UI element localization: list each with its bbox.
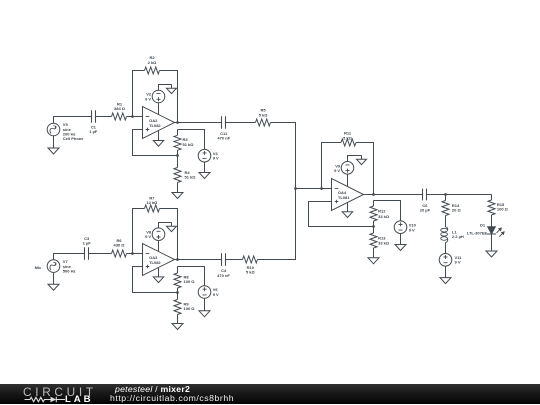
- wire: [491, 234, 493, 251]
- svg-text:33 kΩ: 33 kΩ: [378, 241, 390, 246]
- node A junction: [131, 115, 134, 118]
- wire: [427, 194, 492, 196]
- wire: [159, 223, 172, 228]
- wire: [400, 234, 402, 245]
- svg-text:D1: D1: [480, 223, 486, 228]
- ground: [48, 136, 59, 154]
- ground: [486, 251, 497, 257]
- wire: [175, 122, 222, 124]
- svg-text:5 kΩ: 5 kΩ: [246, 270, 256, 275]
- ground: [368, 258, 379, 264]
- resistor R13 (33 kOhm): [370, 227, 390, 258]
- ground: [440, 278, 451, 284]
- ground: [357, 156, 367, 165]
- resistor R15 (100 Ohm): [488, 195, 509, 227]
- ground: [167, 85, 177, 94]
- wire: [175, 259, 222, 261]
- wire: [258, 189, 296, 260]
- capacitor C4 (470 nF): [217, 253, 230, 278]
- node R12-R13 junction: [372, 225, 375, 228]
- wire: [127, 253, 143, 255]
- wire: [226, 122, 256, 124]
- svg-text:9 V: 9 V: [145, 97, 151, 102]
- ground: [172, 193, 183, 199]
- wire: [127, 116, 143, 118]
- voltage source V4 (9 V): [198, 149, 219, 162]
- wire: [271, 123, 296, 189]
- resistor R4 (51 kOhm): [174, 156, 196, 193]
- svg-text:20 µF: 20 µF: [420, 208, 431, 213]
- wire: [133, 130, 178, 156]
- svg-text:Mic: Mic: [35, 265, 42, 270]
- capacitor C1 (1 uF): [89, 110, 98, 134]
- voltage source V11 (9 V): [439, 253, 462, 266]
- resistor R9 (100 Ohm): [174, 293, 195, 324]
- wire: [159, 85, 172, 91]
- label Mic: [35, 265, 42, 270]
- resistor R11 (5 kOhm) feedback: [341, 131, 356, 146]
- ground: [167, 223, 177, 232]
- ground: [153, 131, 163, 147]
- op-amp OA3 (TL082): [143, 244, 175, 276]
- svg-text:1 µF: 1 µF: [83, 241, 92, 246]
- svg-text:100 Ω: 100 Ω: [497, 207, 509, 212]
- voltage source V6 (9 V): [198, 286, 219, 299]
- svg-text:100 Ω: 100 Ω: [184, 306, 196, 311]
- resistor R2 (2 kOhm) feedback: [145, 55, 160, 74]
- voltage source V5 (sine 200 Hz Cell Phone): [47, 122, 84, 141]
- svg-text:100 Ω: 100 Ω: [184, 279, 196, 284]
- node stage1 output junction: [176, 121, 179, 124]
- svg-text:9 V: 9 V: [213, 292, 219, 297]
- voltage source V8 (9 V): [145, 228, 165, 241]
- svg-text:5 kΩ: 5 kΩ: [343, 135, 353, 140]
- svg-text:500 Hz: 500 Hz: [63, 269, 76, 274]
- resistor R5 (5 kOhm): [256, 108, 271, 126]
- capacitor C6 (20 uF): [420, 189, 431, 213]
- wire: [133, 209, 145, 254]
- wire: [133, 71, 145, 117]
- resistor R1 (384 Ohm): [112, 101, 127, 120]
- logo squiggle: resistor + diode: [0, 384, 110, 405]
- svg-text:5 kΩ: 5 kΩ: [259, 112, 269, 117]
- wire: [347, 174, 349, 186]
- svg-text:9 V: 9 V: [334, 168, 340, 173]
- wire: [54, 254, 85, 260]
- node feedback tee: [320, 187, 323, 190]
- op-amp OA4 (TL081): [332, 179, 364, 211]
- ground: [199, 311, 210, 317]
- ground: [342, 203, 352, 218]
- wire: [204, 298, 206, 311]
- wire: [89, 253, 112, 255]
- voltage source V2 (9 V): [145, 90, 165, 103]
- svg-text:430 Ω: 430 Ω: [114, 243, 126, 248]
- capacitor C11 (470 nF): [217, 116, 230, 140]
- svg-text:Cell Phone: Cell Phone: [63, 136, 84, 141]
- svg-text:9 V: 9 V: [145, 234, 151, 239]
- ground: [395, 245, 406, 251]
- wire: [445, 266, 447, 278]
- node output junction: [444, 193, 447, 196]
- resistor R10 (5 kOhm): [243, 256, 258, 275]
- node R3-R4 junction: [176, 154, 179, 157]
- node summing junction: [294, 187, 297, 190]
- wire: [296, 188, 332, 190]
- wire: [309, 202, 374, 227]
- resistor R8 (100 Ohm): [174, 267, 195, 293]
- svg-text:9 V: 9 V: [213, 156, 219, 161]
- wire: [178, 130, 205, 150]
- svg-text:1 µF: 1 µF: [89, 129, 98, 134]
- svg-text:TL082: TL082: [149, 123, 161, 128]
- wire: [178, 267, 205, 286]
- wire: [160, 209, 178, 260]
- svg-text:12 kΩ: 12 kΩ: [146, 200, 158, 205]
- wire: [226, 259, 243, 261]
- wire: [204, 162, 206, 173]
- svg-text:51 kΩ: 51 kΩ: [183, 142, 195, 147]
- wire: [158, 241, 160, 252]
- svg-text:33 kΩ: 33 kΩ: [378, 214, 390, 219]
- svg-text:470 nF: 470 nF: [217, 273, 230, 278]
- ground: [172, 324, 183, 330]
- wire: [96, 116, 112, 118]
- wire: [158, 103, 160, 115]
- ground: [199, 173, 210, 179]
- capacitor C3 (1 uF): [83, 236, 92, 260]
- LED D1 (LTL-307EE): [467, 223, 504, 237]
- resistor R14 (20 Ohm): [442, 195, 461, 227]
- svg-text:51 kΩ: 51 kΩ: [185, 175, 197, 180]
- resistor R12 (33 kOhm): [370, 201, 390, 227]
- svg-text:9 V: 9 V: [455, 260, 461, 265]
- voltage source V7 (sine 500 Hz Mic): [47, 259, 75, 273]
- wire: [54, 117, 92, 124]
- voltage source V10 (9 V): [394, 221, 416, 234]
- node stage2 output junction: [176, 258, 179, 261]
- svg-text:384 Ω: 384 Ω: [114, 106, 126, 111]
- inductor L1 (2.2 uH): [441, 227, 464, 245]
- voltage source V9 (9 V): [334, 162, 354, 175]
- resistor R7 (12 kOhm) feedback: [145, 195, 160, 212]
- node B junction: [131, 252, 134, 255]
- svg-text:20 Ω: 20 Ω: [452, 208, 462, 213]
- wire: [374, 201, 401, 221]
- wire: [445, 245, 447, 254]
- wire: [356, 143, 374, 195]
- node OA4 output junction: [372, 193, 375, 196]
- svg-text:2.2 µH: 2.2 µH: [452, 234, 464, 239]
- svg-text:LTL-307EE: LTL-307EE: [467, 230, 488, 235]
- resistor R6 (430 Ohm): [112, 238, 127, 257]
- node R8-R9 junction: [176, 291, 179, 294]
- wire: [322, 143, 342, 189]
- svg-text:TL082: TL082: [149, 260, 161, 265]
- op-amp OA2 (TL082): [143, 107, 175, 139]
- svg-text:470 nF: 470 nF: [217, 136, 230, 141]
- ground: [48, 272, 59, 290]
- svg-text:2 kΩ: 2 kΩ: [148, 60, 158, 65]
- resistor R3 (51 kOhm): [174, 130, 194, 156]
- svg-text:TL081: TL081: [338, 195, 350, 200]
- wire: [348, 156, 362, 162]
- ground: [153, 268, 163, 283]
- wire: [160, 71, 178, 123]
- svg-text:9 V: 9 V: [409, 227, 415, 232]
- wire: [364, 194, 423, 196]
- wire: [133, 267, 178, 293]
